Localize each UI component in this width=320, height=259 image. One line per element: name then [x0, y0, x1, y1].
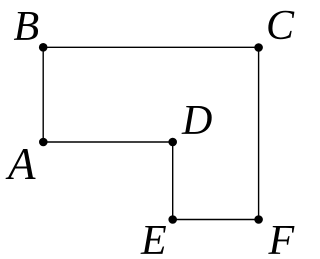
svg-text:E: E — [140, 218, 167, 259]
node A (dot) — [39, 138, 48, 147]
svg-text:C: C — [266, 3, 295, 49]
wire CF (right edge) — [258, 47, 260, 219]
wire EF (bottom edge) — [173, 219, 259, 221]
node C (dot) — [254, 43, 263, 52]
node B (dot) — [39, 43, 48, 52]
svg-text:B: B — [14, 4, 40, 50]
svg-text:A: A — [5, 139, 36, 189]
wire AD (middle horizontal edge) — [43, 141, 173, 143]
node D (dot) — [168, 138, 177, 147]
wire BA (left edge) — [42, 47, 44, 142]
svg-text:F: F — [268, 218, 295, 259]
wire DE (middle vertical edge) — [172, 142, 174, 220]
node E (dot) — [168, 215, 177, 224]
wire BC (top edge) — [43, 46, 258, 48]
node F (dot) — [254, 215, 263, 224]
svg-text:D: D — [181, 98, 212, 144]
